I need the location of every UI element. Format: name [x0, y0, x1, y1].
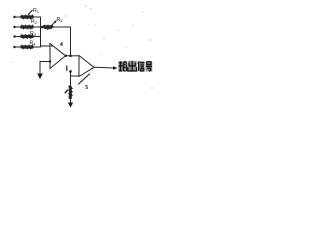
wire [15, 36, 21, 38]
minus tick [51, 45, 53, 47]
wire [34, 36, 41, 38]
label mark [65, 90, 67, 93]
resistor R2 [21, 25, 34, 28]
output arrow [113, 66, 118, 70]
wire [15, 26, 21, 28]
svg-text:5: 5 [85, 85, 88, 91]
wire [15, 16, 21, 18]
op-amp input wire [41, 45, 51, 47]
resistor R6 [69, 86, 72, 99]
resistor R3 [21, 35, 34, 38]
svg-text:R1: R1 [33, 8, 40, 14]
glyph chu [128, 61, 137, 71]
scan speckles [11, 5, 152, 88]
wire [34, 16, 41, 18]
wire non-inverting input [71, 75, 80, 77]
label A5 [79, 74, 90, 84]
text 输出信号 output signal [118, 61, 152, 72]
junction node [41, 26, 44, 29]
ground arrow [68, 103, 73, 108]
op-amp U1 [50, 44, 66, 69]
label R1 [28, 10, 32, 14]
glyph shu [119, 61, 127, 71]
output wire [94, 66, 114, 69]
ground wire [40, 62, 50, 75]
input terminal 3 [13, 35, 15, 37]
wire [34, 46, 41, 48]
resistor R1 [21, 15, 34, 18]
input terminal 1 [13, 16, 15, 18]
wire [15, 46, 21, 48]
node feedback junction [69, 55, 72, 58]
wire [70, 99, 72, 103]
ground arrow [37, 74, 43, 80]
potentiometer R5 [44, 25, 53, 28]
wire [70, 71, 72, 86]
svg-text:R2: R2 [31, 19, 38, 25]
feedback wire [53, 27, 70, 56]
tick mark node [66, 66, 68, 71]
wire to op-amp U2 [71, 55, 80, 57]
op-amp U2 [79, 56, 94, 77]
svg-text:R5: R5 [57, 17, 64, 23]
resistor R4 [21, 45, 34, 48]
node junction [65, 55, 67, 57]
glyph hao [146, 62, 152, 71]
svg-text:R4: R4 [30, 41, 37, 47]
potentiometer arrow [48, 21, 57, 30]
summing bus wire [40, 17, 42, 47]
input terminal 4 [13, 46, 15, 48]
input terminal 2 [13, 26, 15, 28]
node branch top [69, 70, 72, 73]
node non-inverting input [49, 60, 52, 63]
output wire op-amp U1 [66, 55, 71, 57]
wire [34, 26, 41, 28]
glyph xin [138, 61, 145, 71]
